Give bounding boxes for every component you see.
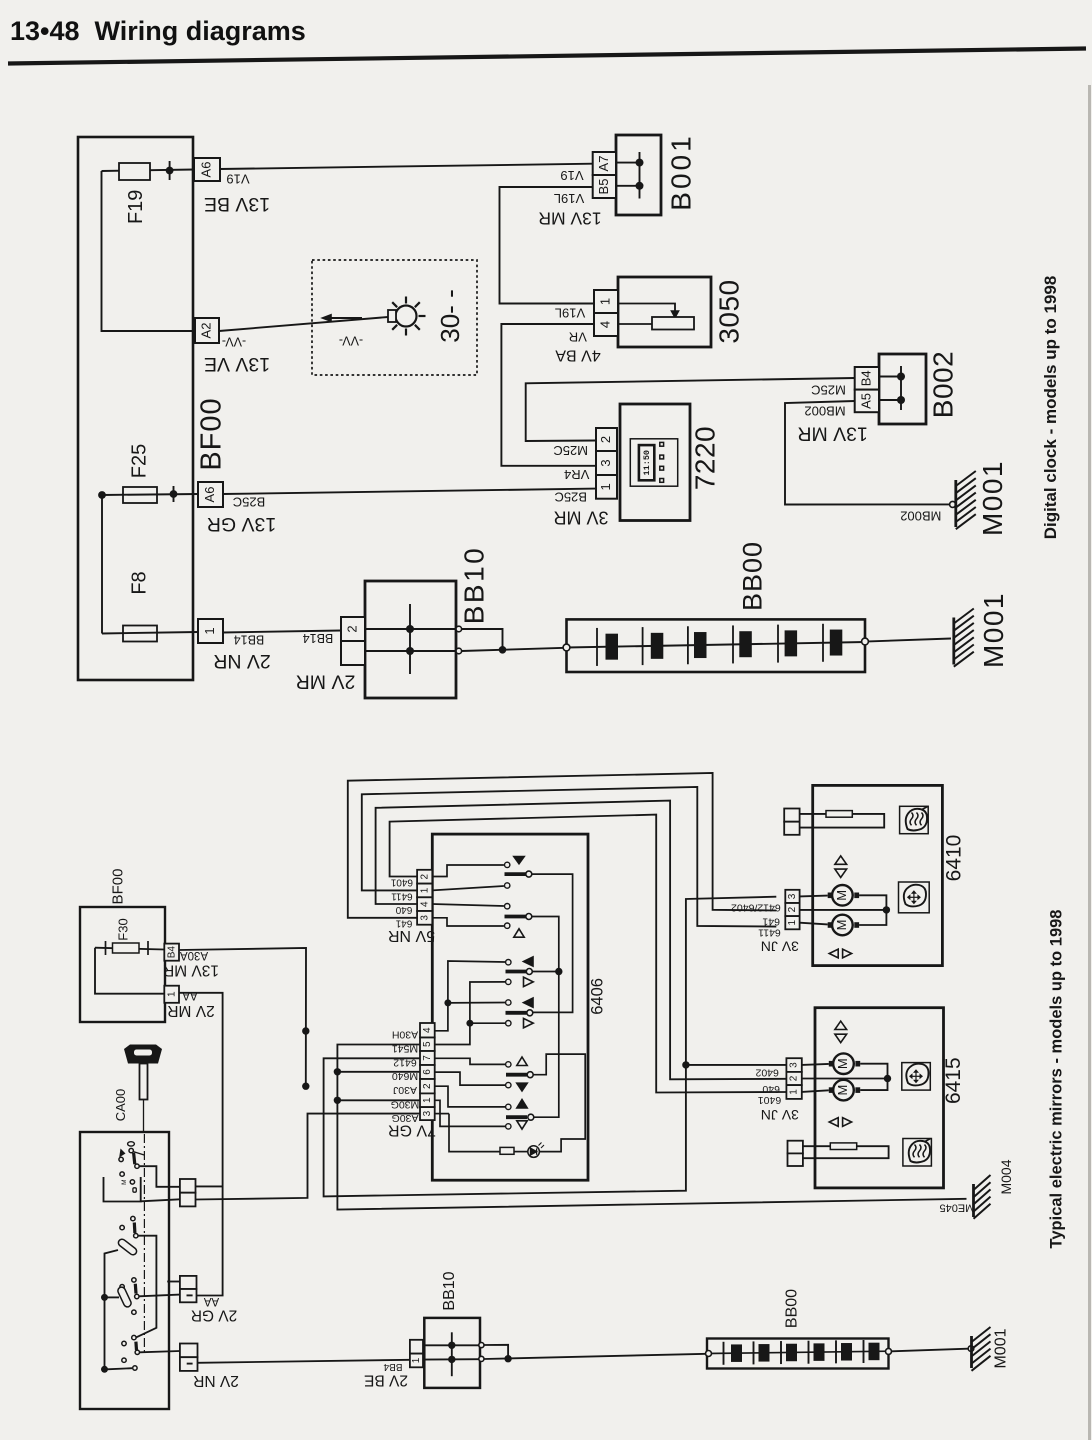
svg-text:M: M	[835, 1058, 850, 1069]
ignition switch CA00	[80, 1132, 169, 1409]
svg-text:A5: A5	[858, 393, 873, 409]
switch group 2	[120, 1225, 124, 1229]
wire 6412/6402: 6406 pin7 to mirrors	[324, 897, 777, 1197]
svg-text:3: 3	[422, 1110, 433, 1116]
relay 3050	[618, 277, 711, 347]
6406 left connector pins 4 5 7 6 2 1 3	[420, 1023, 435, 1038]
svg-text:M: M	[121, 1179, 128, 1184]
svg-text:A30J: A30J	[393, 1084, 417, 1096]
svg-text:M: M	[834, 920, 849, 931]
mirror assembly 6415	[815, 1008, 944, 1188]
fuse box BF00 (mirrors)	[80, 907, 165, 1022]
svg-text:11:50: 11:50	[642, 450, 652, 476]
wire 641 bus: 6406 pin3 to 6410 pin2	[348, 773, 777, 918]
svg-text:640: 640	[395, 904, 412, 915]
svg-text:640: 640	[762, 1083, 780, 1095]
wire 640 bus: 6406 pin4 to 6415 pin2	[376, 801, 787, 1080]
svg-text:6411: 6411	[391, 890, 413, 901]
6406 inner wires top rows	[432, 865, 504, 877]
svg-text:2V MR: 2V MR	[296, 670, 356, 692]
svg-text:BB00: BB00	[738, 541, 768, 611]
svg-text:CA00: CA00	[113, 1089, 128, 1122]
svg-text:2: 2	[598, 436, 613, 443]
6415 left/right arrows	[829, 1118, 838, 1127]
wire 6411 bus: 6406 pin1 to 6410 pin1	[362, 787, 777, 927]
svg-text:2V NR: 2V NR	[213, 650, 270, 672]
connector AA of CA00	[180, 1276, 197, 1289]
fuse F19	[102, 170, 195, 172]
svg-text:13V MR: 13V MR	[163, 962, 219, 979]
6415 up/down arrows	[835, 1021, 847, 1029]
svg-text:6410: 6410	[943, 835, 966, 882]
interior lamp dashed box	[312, 260, 477, 375]
svg-text:A7: A7	[596, 156, 611, 172]
svg-text:1: 1	[789, 1089, 800, 1095]
svg-text:Typical electric mirrors - mod: Typical electric mirrors - models up to …	[1047, 910, 1065, 1249]
wire 7220 pin2 to B002 B4 (M25C)	[526, 378, 855, 441]
wire 6401 bus: 6406 pin2 to 6415 pin1	[390, 815, 787, 1093]
svg-text:A30A: A30A	[180, 949, 208, 961]
mirror switch 6406	[432, 834, 588, 1180]
svg-text:6402: 6402	[755, 1067, 779, 1079]
relay coil inside 3050	[618, 304, 675, 313]
wire B5 to 3050 pin1	[500, 187, 595, 304]
wire BF00 pin1 to BB10 (BB14)	[223, 631, 341, 633]
svg-text:4: 4	[597, 321, 612, 328]
svg-text:6401: 6401	[390, 877, 413, 888]
svg-text:13V GR: 13V GR	[207, 513, 276, 535]
svg-text:13V VE: 13V VE	[204, 353, 270, 375]
svg-text:1: 1	[598, 483, 613, 490]
svg-text:6415: 6415	[942, 1057, 965, 1104]
svg-text:A30H: A30H	[392, 1029, 418, 1041]
earth strip BB00	[567, 619, 866, 672]
svg-text:M: M	[835, 1085, 850, 1096]
earth M001 for BB00	[952, 618, 955, 665]
earth M004	[972, 1184, 975, 1217]
svg-text:7220: 7220	[689, 426, 720, 490]
wire BB10 to BB00	[462, 629, 503, 650]
svg-text:B25C: B25C	[233, 495, 266, 510]
svg-text:30- -: 30- -	[435, 289, 465, 342]
svg-text:MB002: MB002	[804, 403, 845, 418]
svg-text:V19: V19	[560, 168, 583, 183]
svg-text:3V JN: 3V JN	[761, 938, 799, 954]
wire BB10 to BB00 (mirrors)	[484, 1345, 508, 1359]
wire group3 to connector AA	[139, 1295, 180, 1297]
svg-text:6401: 6401	[758, 1094, 782, 1106]
svg-text:2: 2	[787, 906, 798, 912]
svg-text:A2: A2	[198, 323, 213, 339]
svg-text:3: 3	[789, 1062, 800, 1068]
clock display	[630, 439, 677, 486]
wire B002 A5 to earth M001 (MB002)	[785, 401, 950, 505]
row1 up/down contact	[505, 862, 510, 867]
svg-text:2V BE: 2V BE	[364, 1371, 408, 1388]
svg-text:641: 641	[395, 918, 412, 929]
switch group 4	[132, 1335, 136, 1339]
row5 pivot step wire	[534, 1054, 586, 1152]
6415 motor 2	[833, 1080, 854, 1101]
row2 contact	[505, 904, 510, 909]
svg-text:2: 2	[789, 1075, 800, 1081]
svg-text:ME045: ME045	[939, 1202, 974, 1214]
header rule	[8, 49, 1086, 64]
svg-text:B5: B5	[596, 179, 611, 195]
fuse F30	[95, 948, 164, 950]
svg-text:M001: M001	[993, 1328, 1010, 1368]
svg-text:BB4: BB4	[383, 1361, 402, 1372]
connector BB10 (mirrors)	[424, 1318, 480, 1388]
6410 heated mirror icon	[900, 806, 929, 833]
wire BF00 pin1 down to CA00 AA	[179, 993, 223, 1296]
6410 connector pins 3 2 1	[785, 890, 799, 903]
svg-text:13•48 Wiring diagrams: 13•48 Wiring diagrams	[10, 16, 306, 46]
svg-text:1: 1	[411, 1357, 422, 1363]
svg-text:13V MR: 13V MR	[538, 208, 601, 228]
connector B4 of BF00	[164, 944, 179, 961]
6415 connector pins 3 2 1	[786, 1058, 801, 1072]
svg-text:13V MR: 13V MR	[797, 422, 867, 444]
mirror assembly 6410	[813, 785, 943, 965]
svg-text:3050: 3050	[713, 279, 744, 343]
clock 7220	[620, 404, 690, 521]
6410 motor 2	[832, 915, 853, 936]
wire A6 to B001 A7	[220, 164, 593, 169]
svg-text:F30: F30	[115, 918, 130, 940]
svg-text:6406: 6406	[588, 978, 606, 1015]
6410 up/down arrows	[835, 856, 847, 864]
wire group2 down to group4	[136, 1236, 157, 1338]
svg-text:13V BE: 13V BE	[204, 193, 270, 215]
svg-text:4: 4	[422, 1027, 433, 1033]
svg-text:2: 2	[344, 625, 359, 632]
svg-text:M001: M001	[978, 592, 1009, 668]
wire B4 to 6406 feed (A30A)	[179, 948, 306, 1086]
svg-text:V19L: V19L	[554, 191, 584, 206]
svg-text:7V GR: 7V GR	[388, 1121, 436, 1138]
svg-text:BB14: BB14	[303, 631, 334, 645]
svg-text:-VV-: -VV-	[222, 335, 246, 349]
6410 adjust icon	[899, 882, 930, 913]
svg-text:A6: A6	[202, 487, 217, 503]
svg-text:B001: B001	[665, 133, 696, 210]
fuse box BF00	[78, 137, 193, 680]
svg-text:V19: V19	[226, 172, 249, 187]
6410 motor wires	[800, 895, 828, 898]
svg-text:5V NR: 5V NR	[388, 927, 435, 944]
LED indicator in 6406	[435, 1113, 449, 1115]
svg-text:M25C: M25C	[811, 383, 846, 398]
arrow	[330, 317, 362, 319]
wire A2 to interior light	[219, 317, 388, 331]
svg-text:2: 2	[422, 1083, 433, 1089]
earth strip BB00 (mirrors)	[707, 1339, 889, 1369]
6410 heater element	[784, 809, 799, 822]
svg-text:1: 1	[597, 298, 612, 305]
svg-text:1: 1	[787, 919, 798, 925]
wire group1 to connector pair	[139, 1166, 180, 1187]
svg-text:4: 4	[419, 901, 430, 907]
svg-text:MB002: MB002	[900, 509, 941, 524]
connector A2 pin of BF00	[195, 318, 219, 343]
svg-text:1: 1	[202, 627, 217, 634]
6415 heater element	[788, 1141, 803, 1154]
svg-text:5: 5	[422, 1041, 433, 1047]
switch group 3	[132, 1278, 136, 1282]
connector BB10	[365, 581, 456, 698]
wire BF00 A6 to 7220 pin1 (B25C)	[123, 487, 157, 503]
wire pair upper to AA riser	[196, 1185, 223, 1187]
svg-text:4V BA: 4V BA	[555, 346, 601, 363]
svg-text:6: 6	[422, 1069, 433, 1075]
svg-text:M: M	[834, 890, 849, 901]
svg-text:B25C: B25C	[554, 490, 587, 505]
feeds rows 5-6	[435, 1058, 506, 1064]
connector B001	[616, 135, 661, 215]
row3 left/right contact	[506, 960, 511, 965]
6406 top connector pins 2 1 4 3	[417, 870, 432, 884]
svg-text:F8: F8	[128, 571, 150, 594]
row2 pivot to row6 pivot	[532, 917, 559, 1118]
6410 motor 1	[832, 885, 853, 906]
svg-text:1: 1	[422, 1097, 433, 1103]
svg-text:1: 1	[166, 991, 177, 997]
wire BB00 to earth M001 (mirrors)	[892, 1349, 969, 1352]
earth wire M541/M640/M30G to M004	[337, 1045, 966, 1210]
CA00 inner left bus	[105, 1250, 119, 1369]
svg-text:BF00: BF00	[109, 869, 126, 905]
connector A6 pin of BF00	[194, 158, 220, 181]
svg-text:AA: AA	[182, 989, 198, 1001]
svg-text:BF00: BF00	[196, 397, 228, 470]
connector B002	[879, 354, 926, 424]
wire 3050 pin4 to 7220 pin3	[501, 324, 596, 466]
svg-text:B4: B4	[858, 370, 873, 386]
svg-text:2: 2	[419, 873, 430, 879]
svg-text:BB10: BB10	[458, 546, 489, 625]
svg-text:3: 3	[419, 915, 430, 921]
wire group4 to connector BB4	[140, 1351, 180, 1352]
svg-text:6411: 6411	[758, 927, 781, 939]
6415 adjust icon	[902, 1063, 931, 1091]
svg-text:3: 3	[787, 893, 798, 899]
6415 motor 1	[833, 1053, 854, 1074]
svg-text:AA: AA	[204, 1295, 220, 1307]
svg-text:BB10: BB10	[441, 1271, 458, 1310]
svg-text:7: 7	[422, 1055, 433, 1061]
svg-text:F19: F19	[125, 190, 147, 224]
svg-text:M25C: M25C	[553, 443, 588, 458]
svg-text:A6: A6	[198, 162, 213, 178]
svg-text:BB14: BB14	[234, 633, 265, 647]
6410 left/right arrows	[829, 949, 838, 958]
wire F19 to A2	[102, 171, 196, 331]
ignition key symbol	[124, 1045, 162, 1064]
wire pair lower to 6406 A30G	[196, 1114, 421, 1200]
svg-text:V19L: V19L	[555, 306, 585, 321]
page edge shadow	[1088, 85, 1091, 1440]
row4 contact	[506, 1000, 511, 1005]
connector pair at CA00 right	[180, 1179, 196, 1193]
svg-text:1: 1	[419, 887, 430, 893]
svg-text:M004: M004	[998, 1159, 1014, 1194]
svg-text:2V MR: 2V MR	[167, 1002, 214, 1019]
svg-text:6412/6402: 6412/6402	[731, 902, 781, 914]
svg-text:M001: M001	[977, 460, 1008, 536]
svg-text:3V MR: 3V MR	[553, 507, 608, 527]
svg-text:3: 3	[598, 459, 613, 466]
earth M001 for clock	[954, 480, 957, 527]
svg-text:BB00: BB00	[784, 1289, 801, 1328]
fuse F8	[101, 495, 103, 634]
svg-text:Digital clock - models up to 1: Digital clock - models up to 1998	[1041, 276, 1060, 540]
svg-text:F25: F25	[128, 444, 150, 478]
feeds rows 3-4	[435, 961, 506, 1031]
6415 heated mirror icon	[903, 1139, 932, 1167]
lamp symbol	[396, 306, 417, 327]
svg-text:B4: B4	[166, 946, 177, 959]
svg-text:2V GR: 2V GR	[191, 1306, 238, 1323]
M-region outline	[104, 1177, 141, 1202]
connector BB4 of CA00	[180, 1344, 198, 1358]
connector 1 of BF00	[164, 986, 179, 1003]
6415 motor wires	[802, 1064, 829, 1065]
svg-text:2V NR: 2V NR	[193, 1372, 239, 1389]
switch group 1 (ignition)	[129, 1148, 133, 1152]
mechanical link dash-dot	[143, 1134, 145, 1355]
wire CA00 to BB10 (BB4)	[198, 1360, 410, 1363]
svg-text:-VV-: -VV-	[339, 334, 363, 348]
wire BB00 to earth M001	[868, 639, 951, 642]
row5 contact	[506, 1062, 511, 1067]
svg-text:641: 641	[762, 915, 780, 927]
svg-text:VR: VR	[569, 330, 587, 345]
svg-text:3V JN: 3V JN	[761, 1107, 799, 1123]
row6 contact	[506, 1104, 511, 1109]
svg-text:VR4: VR4	[564, 467, 589, 482]
row1 pivot to row4 pivot	[532, 874, 573, 1012]
earth M001 bottom	[970, 1336, 973, 1368]
svg-text:B002: B002	[927, 351, 958, 418]
